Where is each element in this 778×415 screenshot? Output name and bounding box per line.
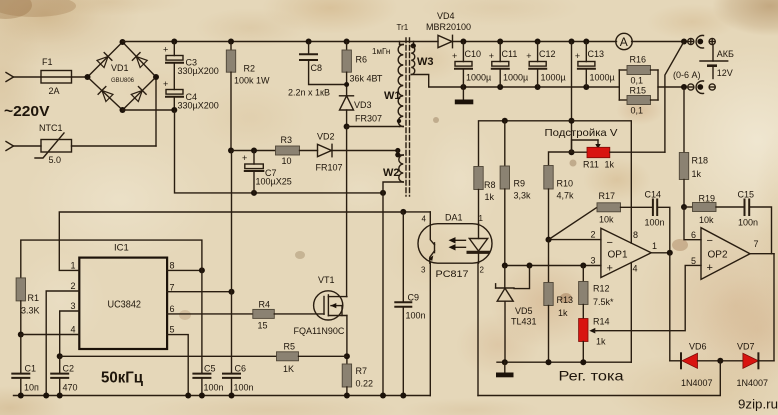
svg-text:5: 5 [170, 325, 175, 335]
resistor R10 [544, 152, 574, 240]
wire W2 ground drop [382, 193, 384, 396]
op-amp OP1 [591, 228, 658, 277]
shunt regulator VD5 TL431 [496, 266, 537, 363]
svg-text:5.0: 5.0 [49, 155, 62, 165]
svg-text:100µX25: 100µX25 [256, 177, 292, 187]
wire pin4 row [21, 334, 80, 336]
svg-text:1000µ: 1000µ [590, 73, 615, 83]
svg-text:1N4007: 1N4007 [681, 378, 713, 388]
capacitor C12 [526, 42, 566, 88]
svg-text:4,7k: 4,7k [557, 191, 575, 201]
svg-text:+: + [575, 51, 580, 61]
resistor R13 [544, 283, 573, 363]
supply line for opamps [479, 118, 632, 243]
wire minus terminal down to R18 [683, 87, 685, 153]
svg-text:+: + [452, 51, 457, 61]
svg-text:A: A [620, 35, 628, 49]
svg-text:12V: 12V [717, 68, 733, 78]
svg-text:1N4007: 1N4007 [737, 378, 769, 388]
ground symbol secondary [455, 87, 474, 104]
svg-text:R1: R1 [28, 293, 40, 303]
svg-text:OP2: OP2 [708, 250, 728, 261]
svg-text:R8: R8 [484, 180, 496, 190]
trimmer R11 [572, 140, 665, 170]
secondary ground line [497, 359, 631, 365]
svg-text:R9: R9 [514, 179, 526, 189]
op-amp OP2 [691, 228, 759, 280]
svg-text:+: + [707, 262, 713, 274]
svg-text:R16: R16 [630, 55, 647, 65]
wire pin6 row [167, 313, 253, 315]
svg-text:1k: 1k [485, 192, 495, 202]
wire pin3 [57, 311, 80, 359]
svg-text:3: 3 [421, 266, 426, 275]
wire OP2 pin6 [684, 207, 701, 240]
resistor R3 [276, 135, 318, 166]
wire OP1 pin2 row [546, 237, 601, 283]
chip IC1 UC3842 [71, 243, 175, 350]
svg-text:36k 4ВТ: 36k 4ВТ [350, 74, 383, 84]
svg-text:R4: R4 [259, 300, 271, 310]
svg-text:NTC1: NTC1 [39, 123, 63, 133]
svg-text:0.22: 0.22 [356, 379, 374, 389]
wire pin2 to gnd [46, 291, 79, 396]
svg-text:1000µ: 1000µ [466, 73, 491, 83]
wire VT1 source to R7 [344, 316, 350, 365]
svg-text:C11: C11 [502, 49, 518, 59]
svg-text:FR307: FR307 [355, 114, 382, 124]
svg-text:C15: C15 [738, 190, 755, 200]
svg-text:VD4: VD4 [437, 11, 455, 21]
svg-text:OP1: OP1 [608, 250, 628, 261]
svg-text:3,3k: 3,3k [514, 191, 532, 201]
fuse F1 [41, 57, 72, 96]
svg-text:C12: C12 [539, 49, 556, 59]
resistor R1 [16, 240, 202, 337]
capacitor C1 [12, 335, 39, 396]
svg-text:R11: R11 [583, 160, 599, 170]
svg-text:3: 3 [71, 301, 76, 311]
resistor R18 [679, 153, 708, 211]
svg-text:FR107: FR107 [316, 163, 343, 173]
svg-text:C2: C2 [63, 364, 75, 374]
svg-text:10: 10 [282, 156, 292, 166]
svg-text:C9: C9 [408, 293, 420, 303]
capacitor C7 [242, 151, 292, 193]
svg-text:Рег. тока: Рег. тока [559, 368, 624, 384]
diode VD2 [316, 132, 401, 173]
svg-text:2.2n x 1кВ: 2.2n x 1кВ [288, 88, 330, 98]
capacitor C13 [575, 42, 615, 88]
svg-text:R18: R18 [692, 156, 709, 166]
svg-text:1k: 1k [558, 308, 568, 318]
svg-text:7: 7 [754, 239, 759, 249]
wire OP2 output [750, 254, 774, 361]
svg-text:VT1: VT1 [318, 275, 335, 285]
svg-text:C14: C14 [645, 190, 662, 200]
svg-text:6: 6 [691, 230, 696, 240]
svg-text:2A: 2A [49, 86, 60, 96]
svg-text:C13: C13 [588, 49, 605, 59]
wire pin1 to opto [59, 212, 403, 270]
svg-text:100k 1W: 100k 1W [234, 76, 270, 86]
output terminal plus [688, 35, 716, 48]
svg-text:10п: 10п [24, 383, 39, 393]
capacitor C11 [489, 42, 528, 88]
capacitor C4 [163, 79, 219, 111]
wire DA1 pin2 down [477, 263, 479, 395]
svg-text:1k: 1k [692, 169, 702, 179]
svg-text:100n: 100n [234, 383, 254, 393]
wire LED return line [478, 361, 720, 396]
svg-text:6: 6 [170, 304, 175, 314]
ammeter A [616, 33, 688, 49]
wire pin7 vcc [167, 151, 234, 295]
resistor R4 [253, 300, 324, 331]
svg-text:R14: R14 [593, 317, 610, 327]
svg-text:100n: 100n [204, 383, 224, 393]
capacitor C9 [395, 212, 425, 396]
resistor R12 [579, 266, 614, 319]
resistor R9 [500, 121, 531, 266]
mosfet VT1 [294, 275, 347, 336]
svg-text:3: 3 [591, 256, 596, 266]
svg-text:10k: 10k [699, 215, 714, 225]
svg-text:1000µ: 1000µ [503, 73, 528, 83]
svg-text:−: − [607, 237, 613, 249]
svg-text:VD5: VD5 [515, 306, 533, 316]
svg-text:W2: W2 [383, 167, 400, 179]
svg-text:R13: R13 [557, 295, 574, 305]
wire DA1 pin3 down [429, 263, 431, 395]
svg-text:C6: C6 [235, 364, 247, 374]
svg-text:~220V: ~220V [4, 103, 50, 120]
svg-text:R12: R12 [593, 284, 610, 294]
svg-text:8: 8 [170, 261, 175, 271]
svg-text:R17: R17 [599, 191, 616, 201]
wire OP1 pin3 row [502, 263, 601, 269]
svg-text:50кГц: 50кГц [101, 370, 143, 387]
wire OP1 output [651, 250, 673, 361]
resistor R19 [684, 194, 744, 226]
svg-text:330µX200: 330µX200 [178, 101, 219, 111]
svg-text:330µX200: 330µX200 [178, 66, 219, 76]
capacitor C10 [452, 42, 491, 88]
capacitor C2 [51, 356, 77, 395]
capacitor C15 [738, 190, 772, 254]
trimmer R14 [579, 317, 610, 363]
svg-text:АКБ: АКБ [717, 49, 734, 59]
svg-text:1000µ: 1000µ [541, 73, 566, 83]
svg-text:3.3K: 3.3K [21, 306, 40, 316]
resistor R5 [60, 342, 347, 375]
capacitor C3 [163, 42, 219, 90]
svg-text:1: 1 [652, 241, 657, 251]
svg-text:7.5k*: 7.5k* [593, 297, 614, 307]
diode VD4 [426, 11, 617, 48]
negative secondary rail [460, 84, 619, 90]
diode VD7 [720, 342, 774, 389]
svg-text:4: 4 [633, 264, 638, 274]
svg-text:W1: W1 [384, 90, 401, 102]
top rail wire [123, 39, 439, 45]
feedback diagonal from plus terminal [665, 42, 684, 153]
resistor R2 [226, 42, 270, 151]
svg-text:8: 8 [633, 230, 638, 240]
svg-text:Tr1: Tr1 [397, 23, 409, 32]
rail dots after VD4 [460, 39, 589, 45]
wire [72, 77, 157, 146]
svg-text:4: 4 [422, 215, 427, 224]
transformer Tr1 core [372, 23, 410, 196]
svg-text:−: − [707, 235, 713, 247]
svg-text:+: + [242, 153, 247, 163]
svg-text:VD7: VD7 [737, 342, 755, 352]
capacitor C14 [645, 190, 670, 253]
svg-text:5: 5 [691, 256, 696, 266]
svg-text:DA1: DA1 [445, 213, 463, 223]
svg-text:0,1: 0,1 [631, 76, 644, 86]
output terminal minus [688, 81, 716, 94]
svg-text:100n: 100n [738, 218, 758, 228]
battery AKB [673, 45, 734, 80]
primary ground rail [14, 393, 431, 399]
svg-text:C8: C8 [311, 63, 323, 73]
resistor R7 [342, 364, 373, 396]
shunt R15 [619, 86, 658, 116]
svg-text:+: + [163, 79, 168, 89]
svg-text:+: + [163, 45, 168, 55]
diode VD3 [340, 96, 383, 130]
capacitor C6 [223, 292, 254, 396]
svg-text:TL431: TL431 [511, 317, 537, 327]
shunt buses [619, 70, 687, 100]
svg-text:C1: C1 [25, 364, 37, 374]
diode VD6 [670, 342, 724, 389]
svg-text:FQA11N90C: FQA11N90C [294, 326, 345, 336]
resistor R6 [342, 42, 383, 96]
svg-text:470: 470 [63, 383, 78, 393]
svg-text:+: + [526, 51, 531, 61]
capacitor C8 [288, 42, 347, 98]
wire bridge minus [123, 107, 387, 196]
wire pin8 vref [167, 267, 205, 273]
wire pin5 to gnd [167, 335, 188, 396]
svg-text:4: 4 [71, 325, 76, 335]
svg-text:2: 2 [591, 230, 596, 240]
svg-text:UC3842: UC3842 [108, 299, 142, 311]
feedback R17 [549, 191, 653, 240]
svg-text:R2: R2 [244, 64, 256, 74]
svg-text:2: 2 [71, 281, 76, 291]
ground symbol control [496, 362, 514, 377]
svg-text:0,1: 0,1 [631, 106, 644, 116]
svg-text:100n: 100n [406, 311, 426, 321]
wire Vcc row [228, 148, 276, 154]
svg-text:1k: 1k [596, 337, 606, 347]
svg-text:R10: R10 [557, 179, 574, 189]
svg-text:VD1: VD1 [111, 63, 129, 73]
svg-text:MBR20100: MBR20100 [426, 22, 471, 32]
svg-text:Подстройка V: Подстройка V [545, 127, 618, 139]
svg-text:VD6: VD6 [689, 342, 707, 352]
svg-text:R15: R15 [630, 86, 647, 96]
wire rail tap down [569, 42, 575, 156]
thermistor NTC1 [35, 123, 72, 165]
svg-text:9zip.ru: 9zip.ru [738, 398, 778, 412]
svg-text:1K: 1K [283, 364, 294, 374]
winding W3 [411, 42, 464, 88]
svg-text:1: 1 [479, 214, 484, 223]
svg-text:1мГн: 1мГн [372, 47, 390, 56]
capacitor C5 [193, 270, 223, 395]
svg-text:R3: R3 [281, 135, 293, 145]
svg-text:VD3: VD3 [354, 100, 372, 110]
svg-text:10k: 10k [599, 215, 614, 225]
svg-text:C10: C10 [465, 49, 482, 59]
svg-text:+: + [607, 263, 613, 275]
svg-text:1: 1 [71, 261, 76, 271]
svg-text:F1: F1 [42, 57, 53, 67]
wire W1 bottom to drain [347, 127, 400, 297]
svg-text:1k: 1k [605, 160, 615, 170]
svg-text:+: + [489, 51, 494, 61]
wire OP1 pin4 down [630, 263, 632, 363]
shunt R16 [619, 55, 658, 86]
svg-text:GBU806: GBU806 [111, 78, 135, 84]
input terminal L [6, 73, 41, 82]
wire DA1 pin4 to opto line [400, 209, 430, 224]
bridge rectifier VD1 GBU806 [85, 39, 160, 113]
svg-text:R7: R7 [356, 366, 368, 376]
input terminal N [6, 142, 41, 151]
svg-text:VD2: VD2 [317, 132, 335, 142]
optocoupler DA1 [418, 213, 492, 281]
wire [72, 76, 88, 78]
svg-text:15: 15 [258, 321, 268, 331]
svg-text:R19: R19 [699, 194, 716, 204]
wire OP2 pin5 from R14 wiper [597, 265, 702, 330]
svg-text:R5: R5 [284, 342, 296, 352]
svg-text:2: 2 [480, 266, 485, 275]
svg-text:R6: R6 [356, 55, 368, 65]
svg-text:(0-6 А): (0-6 А) [673, 70, 701, 80]
svg-text:PC817: PC817 [436, 269, 469, 280]
svg-text:C5: C5 [204, 364, 216, 374]
winding W1 [384, 42, 403, 127]
winding W2 [383, 151, 403, 193]
resistor R8 [474, 167, 496, 224]
svg-text:W3: W3 [417, 56, 434, 68]
svg-text:IC1: IC1 [114, 243, 129, 254]
svg-text:100n: 100n [645, 218, 665, 228]
